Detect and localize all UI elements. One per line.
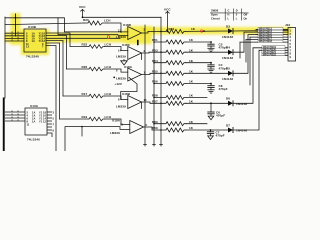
- left resistor row 2: resistor R25: [70, 43, 128, 51]
- net name labels lower stack: [262, 46, 285, 48]
- capacitor C8: [208, 84, 228, 92]
- svg-text:R55: R55: [152, 70, 158, 74]
- svg-text:R22: R22: [82, 43, 88, 47]
- svg-text:9: 9: [53, 128, 55, 132]
- svg-text:SW58: SW58: [211, 9, 219, 13]
- svg-text:VCC: VCC: [164, 7, 171, 11]
- svg-text:Off: Off: [244, 13, 248, 17]
- svg-text:1K: 1K: [189, 100, 194, 104]
- left sheet border line: [4, 17, 6, 98]
- ground under C8: [208, 90, 214, 93]
- svg-text:1N4148: 1N4148: [222, 77, 233, 81]
- diode D4: [222, 32, 258, 60]
- svg-text:U19A: U19A: [112, 118, 121, 122]
- svg-text:R57: R57: [152, 100, 158, 104]
- svg-text:C: C: [228, 9, 230, 13]
- svg-text:R59: R59: [152, 126, 158, 130]
- left resistor row 4: resistor R17: [63, 92, 128, 99]
- svg-text:1K: 1K: [189, 120, 194, 124]
- svg-text:LM339: LM339: [116, 55, 126, 59]
- svg-text:J10: J10: [285, 23, 291, 27]
- svg-text:1A: 1A: [32, 119, 35, 123]
- capacitor C4: [208, 63, 228, 71]
- svg-text:5: 5: [53, 116, 55, 120]
- svg-text:L: L: [228, 17, 230, 21]
- svg-text:U13B: U13B: [28, 25, 37, 29]
- svg-text:H: H: [228, 13, 230, 17]
- right row 10 (diode row): resistor R59: [152, 126, 228, 132]
- right row 9: resistor R60: [152, 120, 207, 126]
- IC U13B: [24, 25, 46, 58]
- connector J10: [285, 23, 296, 61]
- svg-text:D4: D4: [226, 46, 230, 50]
- svg-text:7: 7: [53, 122, 55, 126]
- svg-text:74LS240: 74LS240: [26, 55, 39, 59]
- right row 3 (diode row): resistor R53: [152, 48, 228, 54]
- junction blob under comparator U18D: [137, 40, 139, 45]
- wire rail C from border: [5, 23, 84, 25]
- comparator U19A: [110, 118, 144, 134]
- right row 8 (diode row): resistor R57: [152, 100, 228, 106]
- wire out U18A: [142, 73, 162, 74]
- svg-text:R56: R56: [152, 80, 158, 84]
- svg-text:U18B: U18B: [122, 92, 131, 96]
- svg-text:+12V: +12V: [115, 82, 123, 86]
- svg-text:1K: 1K: [189, 70, 194, 74]
- wire rail A inner branch: [58, 18, 128, 36]
- wire feedback under U18A: [121, 77, 137, 99]
- pin ticks U13A: [11, 111, 14, 112]
- highlighted IC output wire to node D: [46, 37, 120, 39]
- wire highlight: vertical input net at x=15: [11, 13, 21, 45]
- svg-text:470pF: 470pF: [219, 87, 228, 91]
- wire bus 1: [46, 33, 70, 47]
- svg-text:LCH: LCH: [105, 92, 111, 96]
- svg-text:WH2 PB18: WH2 PB18: [259, 39, 273, 43]
- VCC symbol 2: [164, 7, 171, 31]
- switch truth table: [210, 9, 249, 21]
- wire bottom sloped row to U19A input: [65, 127, 130, 151]
- ground arrow below U18C: [121, 60, 128, 66]
- svg-text:1K: 1K: [189, 59, 194, 63]
- comparator U18A: [116, 65, 142, 81]
- output stub verticals under apexes: [141, 53, 143, 60]
- svg-text:D6: D6: [226, 97, 230, 101]
- svg-text:1N4148: 1N4148: [236, 102, 247, 106]
- wire highlight: output row to connector: [141, 27, 292, 35]
- svg-text:Closed: Closed: [211, 17, 220, 21]
- comparator U18C: [116, 43, 142, 60]
- svg-text:R58: R58: [152, 94, 158, 98]
- svg-text:9: 9: [290, 55, 292, 59]
- comparator U18D: [116, 23, 142, 40]
- svg-text:1K: 1K: [189, 126, 194, 130]
- junction dots: [210, 41, 212, 43]
- svg-text:LCH: LCH: [105, 115, 111, 119]
- wire bus 5: [46, 46, 56, 152]
- wire highlight: horizontal band from IC to comparator: [5, 33, 125, 43]
- svg-text:R51: R51: [152, 38, 158, 42]
- svg-text:1K: 1K: [189, 94, 194, 98]
- svg-text:LM339: LM339: [116, 35, 126, 39]
- capacitor C6: [208, 103, 225, 117]
- wire rail A from border to U18D lower area: [5, 18, 128, 32]
- svg-text:3: 3: [53, 110, 55, 114]
- svg-text:1N4148: 1N4148: [236, 129, 247, 133]
- svg-text:R20: R20: [83, 18, 89, 22]
- svg-text:Open: Open: [211, 13, 218, 17]
- VCC symbol 1: [79, 5, 86, 17]
- svg-text:12: 12: [43, 119, 46, 123]
- diode D5: [222, 35, 258, 82]
- wire rail x=161: [160, 17, 162, 146]
- svg-text:470pF: 470pF: [216, 134, 225, 138]
- rail end marks: [144, 144, 147, 146]
- left resistor row 5: resistor R19: [60, 115, 130, 124]
- svg-text:R17: R17: [82, 92, 88, 96]
- svg-text:D: D: [236, 9, 238, 13]
- svg-text:U18C: U18C: [122, 43, 131, 47]
- svg-text:LM339: LM339: [116, 104, 126, 108]
- svg-text:VCC: VCC: [79, 5, 86, 9]
- ground under C7: [208, 136, 214, 140]
- svg-text:LM339: LM339: [110, 131, 120, 135]
- IC U13B input wires: [5, 32, 24, 41]
- svg-text:R26: R26: [82, 65, 88, 69]
- svg-text:R19: R19: [82, 115, 88, 119]
- wire bus 4: [46, 43, 60, 119]
- svg-text:LCH: LCH: [105, 43, 111, 47]
- diode D6: [226, 48, 262, 106]
- wire bus 2: [46, 36, 67, 70]
- svg-text:LCH: LCH: [105, 65, 111, 69]
- diode D3: [222, 24, 288, 38]
- svg-text:1K: 1K: [189, 80, 194, 84]
- svg-text:1K: 1K: [189, 38, 194, 42]
- svg-text:1N4148: 1N4148: [222, 35, 233, 39]
- svg-text:D3: D3: [226, 24, 230, 28]
- svg-text:470pF: 470pF: [216, 114, 225, 118]
- wire highlight: comparator U18D swipe: [118, 26, 152, 44]
- svg-text:R54: R54: [152, 59, 158, 63]
- svg-text:U18A: U18A: [124, 65, 133, 69]
- wire highlight: IC U13B body: [21, 29, 49, 55]
- svg-text:U13A: U13A: [30, 104, 39, 108]
- right row 7: resistor R58: [152, 94, 207, 100]
- svg-text:1K: 1K: [189, 48, 194, 52]
- highlighted input net vertical wire: [15, 14, 17, 36]
- comparator U18B: [116, 92, 142, 109]
- diode D7: [226, 50, 262, 132]
- resistor R20: [84, 21, 107, 25]
- capacitor C7: [207, 130, 224, 138]
- IC U13A (bottom left): [5, 108, 52, 137]
- junction dots on rails: [160, 31, 162, 33]
- svg-text:74LS240: 74LS240: [27, 138, 40, 142]
- ink layer: [3, 5, 296, 151]
- wire rail x=154: [153, 27, 155, 146]
- svg-text:L: L: [236, 17, 238, 21]
- svg-text:R53: R53: [152, 48, 158, 52]
- wire rail B (VCC rail): [83, 16, 162, 18]
- right row 1 (yellow output row): resistor R52: [161, 27, 228, 34]
- wire out U18D: [142, 31, 162, 33]
- svg-text:WH2 PB22: WH2 PB22: [263, 52, 277, 56]
- capacitor C5: [208, 42, 228, 50]
- wire out U19A: [144, 127, 162, 130]
- svg-text:D5: D5: [226, 67, 230, 71]
- wire bus 3: [46, 41, 63, 97]
- right row 2 (cap row): resistor R51: [152, 38, 210, 44]
- wire rail x=145: [144, 25, 146, 146]
- net label stack upper wires: [240, 30, 288, 85]
- svg-text:1A: 1A: [32, 39, 35, 43]
- ground under C6: [208, 116, 214, 120]
- left resistor row 3: resistor R23: [67, 65, 128, 72]
- svg-text:R60: R60: [152, 120, 158, 124]
- svg-text:D7: D7: [226, 123, 230, 127]
- left sheet border thick segment: [3, 98, 5, 152]
- svg-text:11: 11: [27, 122, 30, 126]
- svg-text:LM339: LM339: [116, 76, 126, 80]
- right row 4 (cap row): resistor R54: [152, 59, 210, 65]
- wire from R20 to comparator U18D top input: [107, 23, 121, 32]
- net label stack lower wires: [262, 48, 288, 56]
- svg-text:On: On: [244, 17, 248, 21]
- net name labels upper stack: [258, 27, 285, 57]
- output stubs U13A: [47, 111, 52, 113]
- svg-text:2: 2: [146, 123, 148, 127]
- wire out U18B: [142, 102, 162, 103]
- ground under C5: [208, 48, 214, 51]
- pin number ticks: [11, 32, 14, 33]
- svg-text:R52: R52: [169, 27, 175, 31]
- svg-text:LCH: LCH: [104, 19, 110, 23]
- svg-text:U18D: U18D: [123, 23, 132, 27]
- ground under C4: [208, 69, 214, 72]
- wire out U18C: [142, 51, 162, 54]
- input wires U13A: [5, 111, 25, 113]
- svg-text:1N4148: 1N4148: [222, 56, 233, 60]
- highlighter swipes (under ink): [5, 13, 292, 55]
- right row 6 (cap row): resistor R56: [152, 80, 210, 86]
- svg-text:8: 8: [118, 97, 120, 101]
- right row 5 (diode row): resistor R55: [152, 70, 228, 76]
- svg-text:5: 5: [236, 13, 238, 17]
